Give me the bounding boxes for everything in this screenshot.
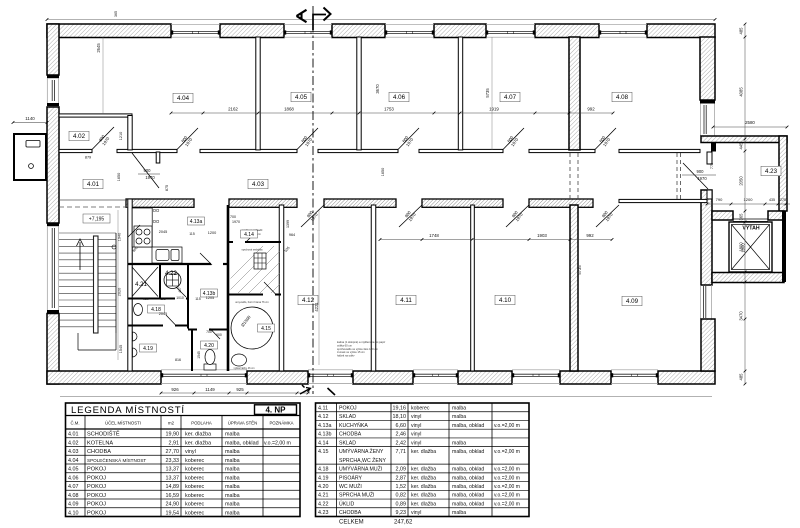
svg-text:365: 365 (114, 11, 118, 17)
svg-text:4.15: 4.15 (318, 449, 329, 455)
svg-text:700: 700 (206, 330, 212, 334)
svg-text:4.11: 4.11 (400, 297, 412, 304)
svg-text:koberec: koberec (185, 475, 204, 481)
corridor south wall east thin part (619, 199, 707, 202)
svg-text:992: 992 (586, 233, 594, 238)
svg-text:POKOJ: POKOJ (87, 484, 106, 490)
room label 4.23 (761, 166, 781, 176)
svg-text:275: 275 (780, 198, 786, 202)
elevator shaft top-left stub (712, 211, 733, 220)
svg-text:vinyl: vinyl (411, 440, 421, 446)
svg-text:4.02: 4.02 (73, 133, 86, 140)
room label 4.03 (248, 179, 268, 189)
svg-text:malba: malba (225, 510, 240, 516)
svg-text:1940: 1940 (118, 233, 122, 241)
svg-text:2045: 2045 (159, 230, 167, 234)
svg-text:4.04: 4.04 (68, 458, 79, 464)
dims right horizontal (713, 126, 787, 128)
svg-text:4.03: 4.03 (252, 181, 265, 188)
elevator shaft right wall (782, 211, 786, 282)
svg-text:2,87: 2,87 (396, 475, 407, 481)
lower flight outline (77, 333, 79, 350)
svg-text:v.o.=2,00 m: v.o.=2,00 m (494, 449, 520, 455)
svg-text:malba: malba (225, 458, 240, 464)
svg-text:115: 115 (195, 297, 201, 301)
svg-text:ker. dlažba: ker. dlažba (411, 493, 436, 499)
svg-text:2,42: 2,42 (396, 440, 407, 446)
room label 4.07 (500, 92, 520, 102)
svg-text:malba: malba (452, 510, 466, 516)
svg-text:POKOJ: POKOJ (87, 467, 106, 473)
room 4.02 east wall (128, 116, 132, 150)
room 4.02 north wall (59, 114, 132, 117)
door to 4.06 (398, 128, 419, 150)
svg-text:malba: malba (225, 484, 240, 490)
shower 4.21 cross (132, 267, 158, 297)
shower circle 4.15 (231, 307, 273, 349)
svg-text:malba, obklad: malba, obklad (452, 423, 484, 429)
svg-text:4.23: 4.23 (318, 510, 329, 516)
door to 4.10 (506, 205, 529, 227)
bottom rooms dim chain (380, 239, 612, 241)
svg-text:790: 790 (716, 197, 723, 202)
bottom exterior dims (160, 392, 310, 394)
vertical dim 5735 (4.07) (491, 37, 493, 150)
svg-text:925: 925 (236, 387, 244, 392)
bottom exterior wall pier 5 (560, 371, 611, 384)
svg-text:WC MUŽI: WC MUŽI (339, 482, 362, 490)
room label 4.02 (69, 131, 89, 141)
door to 4.04 (177, 128, 198, 150)
wall 4.21|4.22 (159, 264, 161, 299)
svg-text:malba, obklad: malba, obklad (452, 501, 484, 507)
svg-text:875: 875 (165, 185, 169, 191)
svg-text:v.o.=2,00 m: v.o.=2,00 m (264, 440, 291, 446)
svg-text:4.06: 4.06 (68, 475, 79, 481)
svg-text:4. NP: 4. NP (265, 405, 286, 414)
svg-text:4.05: 4.05 (295, 94, 308, 101)
svg-text:1,52: 1,52 (396, 484, 407, 490)
svg-text:koberec: koberec (411, 405, 430, 411)
bottom exterior wall pier 3 (353, 371, 413, 384)
svg-text:ÚPRAVA STĚN: ÚPRAVA STĚN (228, 421, 257, 426)
svg-text:POKOJ: POKOJ (87, 510, 106, 516)
svg-text:1205: 1205 (206, 296, 214, 300)
elevator door line (733, 218, 768, 220)
svg-text:2645: 2645 (96, 43, 101, 53)
svg-text:PODLAHA: PODLAHA (191, 421, 212, 426)
svg-text:ker. dlažba: ker. dlažba (411, 467, 436, 473)
corridor 4.03 south wall hatched part (126, 199, 194, 207)
toilet 4.20 (204, 364, 216, 370)
svg-text:4.11: 4.11 (318, 405, 328, 411)
tub 4.15 (232, 354, 247, 366)
top exterior wall pier 4 (434, 24, 486, 38)
svg-text:malba: malba (225, 432, 240, 438)
corridor 4.03 north wall (59, 149, 92, 152)
svg-text:malba, obklad: malba, obklad (452, 484, 484, 490)
svg-text:4.21: 4.21 (135, 282, 147, 288)
room label 4.20 (201, 341, 218, 349)
kitchen 4.13a south wall (128, 263, 211, 265)
stairs treads (59, 232, 116, 234)
svg-text:4.14: 4.14 (244, 232, 254, 238)
top exterior wall pier 2 (220, 24, 284, 38)
svg-text:4.01: 4.01 (87, 181, 100, 188)
svg-text:485: 485 (739, 27, 744, 35)
svg-text:ker. dlažba: ker. dlažba (411, 449, 436, 455)
svg-text:4.08: 4.08 (68, 493, 79, 499)
svg-text:427: 427 (178, 287, 182, 293)
svg-text:879: 879 (85, 156, 91, 160)
svg-text:1545: 1545 (119, 345, 123, 353)
corridor 4.23 north wall (701, 136, 787, 143)
svg-text:19,54: 19,54 (166, 510, 180, 516)
section arrows bottom (300, 389, 310, 395)
svg-text:1399: 1399 (286, 220, 290, 228)
svg-text:16,59: 16,59 (166, 493, 180, 499)
wall 4.12|4.11 (371, 205, 376, 371)
overhead beam dashes in corridor (569, 153, 571, 199)
svg-text:1545: 1545 (197, 351, 201, 359)
svg-text:2,46: 2,46 (396, 432, 407, 438)
4.21/4.22 south wall (128, 298, 175, 300)
svg-text:775: 775 (710, 163, 714, 169)
svg-text:4.05: 4.05 (68, 467, 79, 473)
top interior dim chain (171, 112, 613, 114)
svg-text:SCHODIŠTĚ: SCHODIŠTĚ (87, 430, 120, 438)
room label 4.04 (173, 93, 193, 103)
svg-text:1970: 1970 (232, 220, 240, 224)
svg-text:PISOÁRY: PISOÁRY (339, 474, 363, 481)
top exterior wall pier 5 (535, 24, 599, 38)
svg-text:v.o.=2,00 m: v.o.=2,00 m (494, 475, 520, 481)
svg-text:OO: OO (153, 208, 160, 213)
svg-text:365: 365 (739, 213, 744, 221)
svg-text:1650: 1650 (381, 168, 385, 176)
svg-text:koberec: koberec (185, 502, 204, 508)
svg-text:UMÝVÁRNA ŽENY: UMÝVÁRNA ŽENY (339, 447, 384, 455)
svg-text:4.03: 4.03 (68, 449, 79, 455)
kitchen counter 4.13a (132, 208, 152, 247)
svg-text:sprchovadlo ve výšce štos 120: sprchovadlo ve výšce štos 120 cm (337, 347, 379, 351)
svg-text:700: 700 (230, 215, 236, 219)
svg-text:SKLAD: SKLAD (339, 414, 356, 420)
section arrow top (313, 15, 326, 31)
svg-text:v.o.=2,00 m: v.o.=2,00 m (494, 467, 520, 473)
svg-text:2,09: 2,09 (396, 467, 407, 473)
svg-text:19,16: 19,16 (393, 405, 407, 411)
stair up arrow (79, 242, 81, 270)
4.18 south wall (128, 325, 163, 327)
svg-text:4.10: 4.10 (499, 297, 512, 304)
svg-text:SPRCHA MUŽI: SPRCHA MUŽI (339, 491, 374, 499)
svg-text:4.22: 4.22 (318, 501, 329, 507)
svg-text:SPOLEČENSKÁ MÍSTNOST: SPOLEČENSKÁ MÍSTNOST (87, 457, 146, 463)
svg-text:1903: 1903 (537, 233, 547, 238)
svg-text:1149: 1149 (205, 387, 215, 392)
left exterior wall upper (47, 24, 59, 75)
corridor east end stubs (707, 152, 712, 164)
elevator cab (729, 222, 772, 272)
room label 4.11 (396, 295, 416, 305)
door corridor east 900/1970 (683, 163, 708, 189)
corridor 4.23 east wall (779, 136, 787, 211)
svg-text:4.20: 4.20 (204, 343, 214, 349)
room label 4.08 (612, 92, 632, 102)
svg-text:LEGENDA MÍSTNOSTÍ: LEGENDA MÍSTNOSTÍ (71, 405, 185, 416)
room label 4.13b (201, 289, 218, 297)
svg-text:18,10: 18,10 (393, 414, 407, 420)
room label 4.19 (140, 344, 157, 352)
svg-text:CHODBA: CHODBA (339, 432, 362, 438)
right exterior wall lower corner (701, 319, 715, 371)
bottom exterior wall pier 4 (458, 371, 512, 384)
svg-text:ÚKLID: ÚKLID (339, 500, 355, 507)
wall 4.10|4.09 hatched (570, 205, 578, 371)
svg-text:2020: 2020 (118, 288, 122, 296)
room label 4.13a (188, 217, 205, 225)
svg-text:4.19: 4.19 (318, 475, 329, 481)
kitchen stove (134, 226, 152, 247)
svg-text:4.09: 4.09 (626, 298, 639, 305)
svg-text:háček na odév: háček na odév (337, 354, 355, 358)
elevator shaft bottom wall (712, 273, 784, 283)
svg-text:ker. dlažba: ker. dlažba (411, 501, 436, 507)
dim 1140 (13, 122, 47, 124)
svg-text:v.o.=2,00 m: v.o.=2,00 m (494, 501, 520, 507)
svg-text:23,33: 23,33 (166, 458, 180, 464)
svg-text:POKOJ: POKOJ (339, 405, 357, 411)
svg-text:koberec: koberec (185, 510, 204, 516)
bottom wall windows (161, 369, 247, 371)
svg-text:ker. dlažba: ker. dlažba (185, 432, 211, 438)
svg-text:malba, obklad: malba, obklad (452, 449, 484, 455)
svg-text:0,89: 0,89 (396, 501, 407, 507)
svg-text:malba: malba (452, 440, 466, 446)
svg-text:malba: malba (225, 449, 240, 455)
svg-text:1010: 1010 (176, 296, 184, 300)
kitchen sink unit (152, 247, 182, 263)
svg-text:3670: 3670 (375, 84, 380, 94)
svg-text:+7,195: +7,195 (89, 217, 105, 223)
svg-text:SPRCHA,WC ŽENY: SPRCHA,WC ŽENY (339, 456, 387, 464)
right wall window upper (699, 104, 701, 137)
svg-text:4.12: 4.12 (318, 414, 329, 420)
basin 4.18 (134, 304, 143, 316)
door to 4.05 (297, 128, 318, 150)
svg-text:malba: malba (225, 475, 240, 481)
elevator shaft top-right stub (768, 211, 784, 220)
wall cabinet left (14, 134, 46, 180)
svg-text:1800: 1800 (739, 242, 744, 252)
left wall window 1 (47, 75, 59, 78)
svg-text:vinyl: vinyl (411, 423, 421, 429)
wall 4.11|4.10 (471, 205, 475, 371)
wall 4.22|4.13b (187, 264, 189, 329)
wall 4.05|4.06 (357, 37, 361, 150)
section line A-A (312, 6, 314, 394)
bottom exterior wall pier 2 (247, 371, 308, 384)
svg-text:malba: malba (225, 467, 240, 473)
left exterior wall lower corner (47, 314, 59, 385)
door to 4.12 (301, 205, 324, 227)
door to 4.09 (596, 205, 619, 227)
svg-text:malba, obklad: malba, obklad (452, 475, 484, 481)
svg-text:4.13b: 4.13b (318, 432, 332, 438)
svg-text:výška háčky 46 cm: výška háčky 46 cm (233, 367, 254, 370)
svg-text:malba: malba (452, 405, 466, 411)
svg-text:sprchová sedačka: sprchová sedačka (242, 248, 263, 252)
svg-text:4.13a: 4.13a (190, 219, 203, 225)
svg-text:CHODBA: CHODBA (87, 449, 111, 455)
svg-text:900: 900 (697, 169, 705, 174)
svg-text:6,60: 6,60 (396, 423, 407, 429)
svg-text:KUCHYŇKA: KUCHYŇKA (339, 422, 368, 429)
svg-text:920: 920 (143, 297, 149, 301)
urinals 4.19 (133, 332, 138, 341)
svg-text:4.23: 4.23 (765, 168, 778, 175)
svg-text:1210: 1210 (119, 132, 123, 140)
svg-text:5735: 5735 (577, 265, 582, 275)
svg-text:4.15: 4.15 (261, 326, 271, 332)
room label 4.10 (495, 295, 515, 305)
svg-text:4.13a: 4.13a (318, 423, 332, 429)
svg-text:0,82: 0,82 (396, 493, 407, 499)
bottom exterior wall pier 1 (47, 371, 161, 384)
cleaning sink 4.22 (164, 272, 181, 289)
left exterior wall middle (47, 107, 59, 223)
svg-text:1919: 1919 (489, 107, 499, 112)
svg-text:1200: 1200 (744, 197, 754, 202)
room label 4.12 (298, 295, 318, 305)
service block west wall (128, 199, 132, 371)
svg-text:1868: 1868 (284, 107, 294, 112)
svg-text:ker. dlažba: ker. dlažba (411, 484, 436, 490)
door 4.01 to corridor (156, 152, 160, 163)
door to 4.11 (399, 205, 422, 227)
svg-text:OO: OO (153, 219, 160, 224)
left wall stair window (47, 223, 59, 226)
top wall windows (171, 23, 220, 25)
svg-text:POZNÁMKA: POZNÁMKA (269, 421, 293, 426)
svg-text:964: 964 (289, 233, 295, 237)
door 4.02 (92, 127, 114, 150)
svg-text:992: 992 (587, 107, 595, 112)
svg-text:4.01: 4.01 (68, 432, 79, 438)
svg-text:UMÝVÁRNA MUŽI: UMÝVÁRNA MUŽI (339, 465, 382, 473)
dims room 4.12 (318, 210, 320, 365)
svg-text:v.o.=2,00 m: v.o.=2,00 m (494, 484, 520, 490)
svg-text:ÚČEL MÍSTNOSTI: ÚČEL MÍSTNOSTI (105, 421, 141, 426)
room label 4.06 (389, 92, 409, 102)
svg-text:24,90: 24,90 (166, 502, 180, 508)
overall dim line bottom (60, 396, 712, 398)
svg-text:malba, obklad: malba, obklad (452, 467, 484, 473)
wall 4.15|4.12 (279, 205, 284, 371)
svg-text:KOTELNA: KOTELNA (87, 440, 113, 446)
svg-text:4.14: 4.14 (318, 440, 329, 446)
svg-text:v.o.=2,00 m: v.o.=2,00 m (494, 423, 520, 429)
top exterior wall pier 6 (647, 24, 715, 38)
svg-text:4.07: 4.07 (504, 94, 517, 101)
svg-text:27,70: 27,70 (166, 449, 180, 455)
svg-text:7,71: 7,71 (396, 449, 407, 455)
svg-text:9,23: 9,23 (396, 510, 407, 516)
svg-text:4.10: 4.10 (68, 510, 79, 516)
svg-text:2,91: 2,91 (169, 440, 180, 446)
svg-text:malba, obklad: malba, obklad (225, 440, 259, 446)
svg-text:1970: 1970 (697, 176, 707, 181)
4.20 west wall (191, 330, 193, 372)
svg-text:SKLAD: SKLAD (339, 440, 356, 446)
svg-text:2580: 2580 (745, 120, 755, 125)
svg-text:1753: 1753 (384, 107, 394, 112)
svg-text:malba: malba (225, 493, 240, 499)
svg-text:4.20: 4.20 (318, 484, 329, 490)
svg-text:1200: 1200 (208, 231, 216, 235)
top exterior wall pier 1 (47, 24, 171, 38)
right wall cap (700, 100, 715, 104)
svg-text:1650: 1650 (117, 173, 121, 181)
wall 4.06|4.07 (458, 37, 462, 150)
svg-text:4085: 4085 (739, 87, 744, 97)
room label 4.14 (241, 230, 258, 238)
shower seat room hatch (216, 245, 352, 293)
svg-text:POKOJ: POKOJ (87, 493, 106, 499)
svg-text:13,37: 13,37 (166, 475, 180, 481)
svg-text:CHODBA: CHODBA (339, 510, 362, 516)
svg-text:vinyl: vinyl (411, 432, 421, 438)
svg-text:115: 115 (189, 232, 195, 236)
svg-text:vinyl: vinyl (411, 510, 421, 516)
svg-text:2045: 2045 (159, 312, 167, 316)
overall dim line top (47, 19, 715, 21)
4.14 south wall (229, 241, 233, 243)
svg-text:malba: malba (225, 502, 240, 508)
dims right side vertical chain (744, 24, 746, 384)
right exterior wall mid (701, 190, 712, 285)
svg-text:4.07: 4.07 (68, 484, 79, 490)
svg-text:2050: 2050 (739, 176, 744, 186)
svg-text:900: 900 (144, 168, 152, 173)
top exterior wall pier 3 (332, 24, 385, 38)
svg-text:4.19: 4.19 (143, 346, 153, 352)
svg-text:Č.M.: Č.M. (70, 421, 79, 426)
svg-text:4.22: 4.22 (165, 271, 177, 277)
svg-text:4221: 4221 (314, 302, 319, 312)
svg-text:115: 115 (160, 297, 166, 301)
door to 4.08 (595, 128, 616, 150)
svg-text:14,89: 14,89 (166, 484, 180, 490)
svg-text:4.02: 4.02 (68, 440, 79, 446)
svg-text:13,37: 13,37 (166, 467, 180, 473)
landing edge dashes (59, 199, 128, 201)
svg-text:umyvadlo, horní hrana 76 cm: umyvadlo, horní hrana 76 cm (235, 300, 269, 304)
svg-text:malba, obklad: malba, obklad (452, 493, 484, 499)
svg-text:4.21: 4.21 (318, 493, 329, 499)
svg-text:485: 485 (739, 373, 744, 381)
svg-text:koberec: koberec (185, 493, 204, 499)
svg-text:2162: 2162 (228, 107, 238, 112)
svg-text:POKOJ: POKOJ (87, 502, 106, 508)
svg-text:1970: 1970 (145, 175, 155, 180)
svg-text:445: 445 (739, 142, 744, 150)
svg-text:v.o.=2,00 m: v.o.=2,00 m (494, 493, 520, 499)
elevator cross (732, 225, 770, 270)
svg-text:4.09: 4.09 (68, 502, 79, 508)
svg-text:600: 600 (216, 333, 222, 337)
